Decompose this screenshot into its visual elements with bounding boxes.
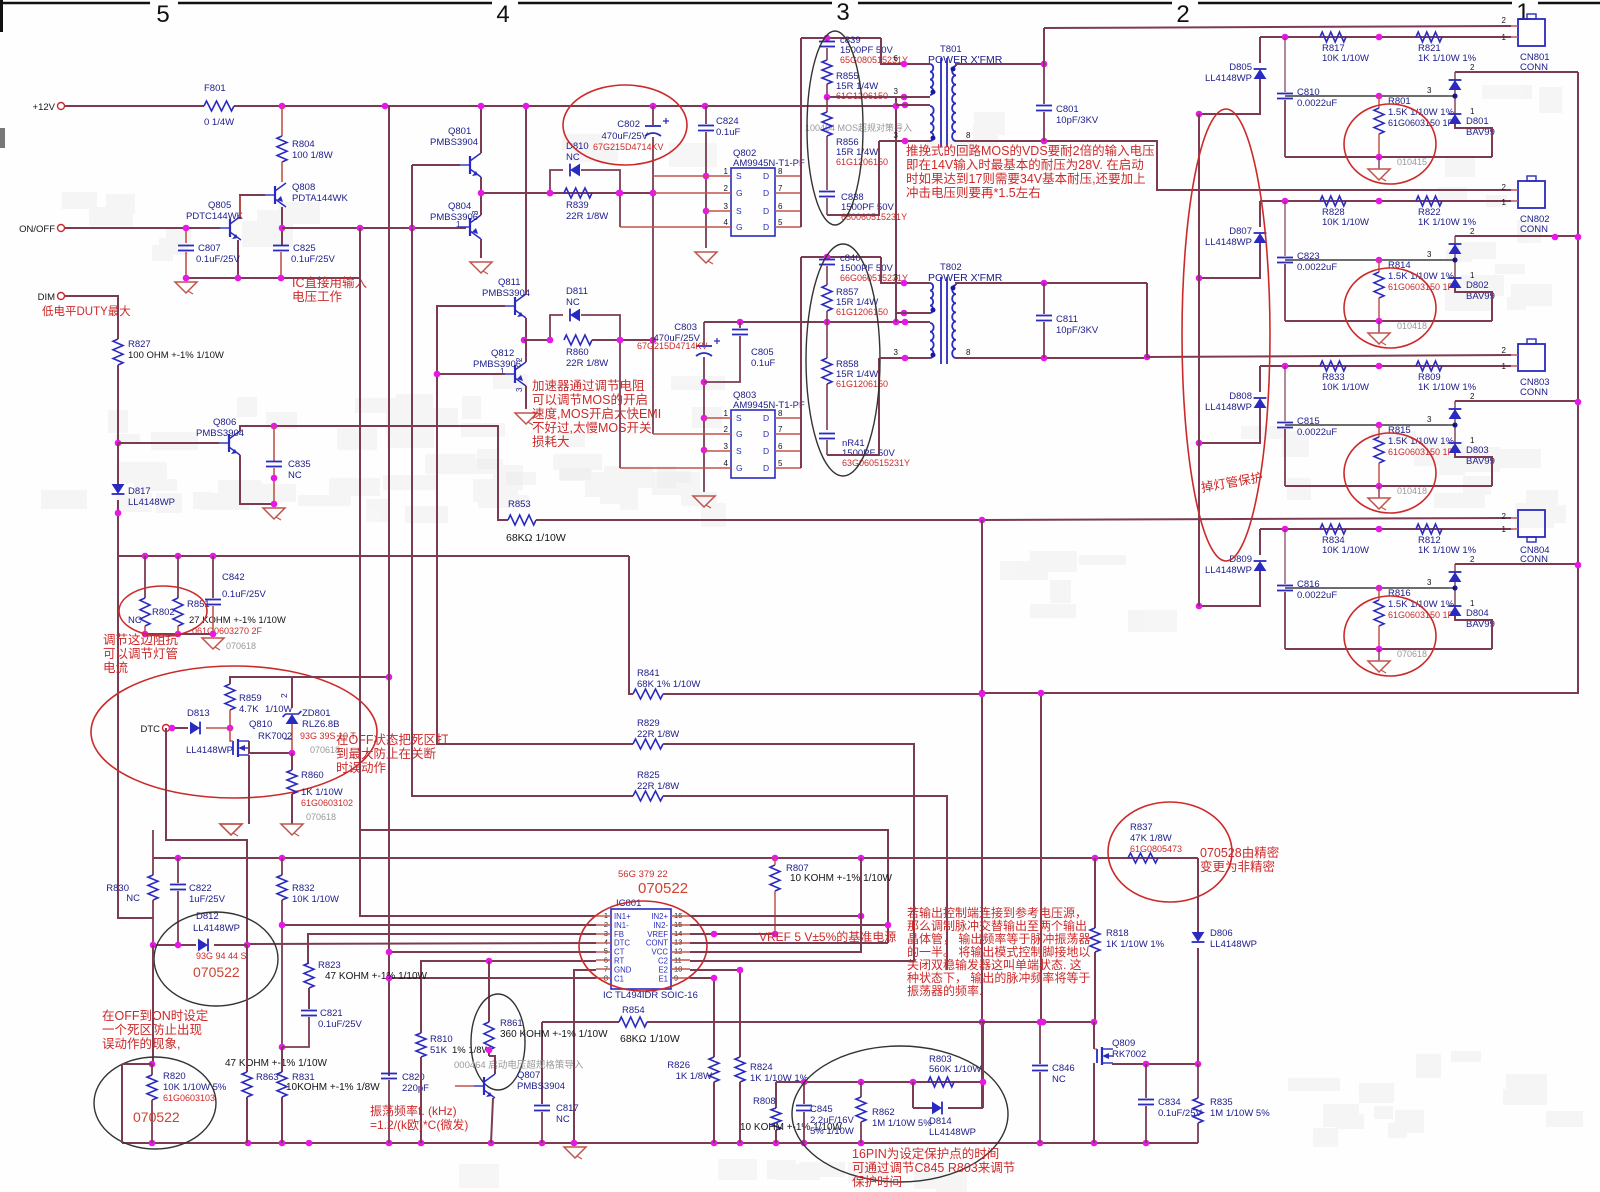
svg-text:LL4148WP: LL4148WP bbox=[1205, 402, 1252, 413]
svg-text:63G060515231Y: 63G060515231Y bbox=[842, 458, 910, 468]
diode D809 LL4148WP bbox=[1259, 529, 1261, 555]
svg-text:R861: R861 bbox=[500, 1018, 523, 1029]
svg-text:可通过调节C845 R803来调节: 可通过调节C845 R803来调节 bbox=[852, 1161, 1015, 1175]
svg-text:6: 6 bbox=[778, 442, 783, 451]
svg-text:NC: NC bbox=[556, 1114, 570, 1125]
resistor R815 bbox=[1378, 425, 1380, 437]
black ellipse around R820 bbox=[94, 1057, 216, 1149]
capacitor C816 bbox=[1284, 529, 1286, 584]
svg-text:PMBS3906: PMBS3906 bbox=[473, 359, 521, 370]
svg-text:61G0603150 1F: 61G0603150 1F bbox=[1388, 282, 1454, 292]
svg-text:10K 1/10W: 10K 1/10W bbox=[1322, 217, 1369, 228]
svg-text:到最大防止在关断: 到最大防止在关断 bbox=[336, 746, 436, 761]
svg-text:070528由精密: 070528由精密 bbox=[1200, 845, 1279, 860]
svg-text:C801: C801 bbox=[1056, 104, 1079, 115]
svg-text:种状态下， 输出的脉冲频率将等于: 种状态下， 输出的脉冲频率将等于 bbox=[907, 970, 1090, 985]
svg-text:ON/OFF: ON/OFF bbox=[19, 224, 55, 235]
wire T801 secondary bottom pin8 bbox=[956, 141, 1511, 190]
wire Q804 collector to rail y=193 bbox=[480, 193, 482, 215]
wire D804 pin2 to loop bbox=[1455, 563, 1578, 565]
wire bottom row CN801 bbox=[1285, 156, 1492, 158]
svg-text:LL4148WP: LL4148WP bbox=[1205, 237, 1252, 248]
svg-text:损耗大: 损耗大 bbox=[532, 435, 570, 449]
svg-text:D: D bbox=[763, 429, 769, 439]
svg-text:不好过,太慢MOS开关: 不好过,太慢MOS开关 bbox=[532, 420, 651, 435]
wire Q802 pin3 S row bbox=[706, 210, 731, 212]
svg-text:CT: CT bbox=[614, 948, 625, 957]
svg-text:R804: R804 bbox=[292, 139, 315, 150]
svg-text:8: 8 bbox=[778, 167, 783, 176]
wire right loop bbox=[982, 72, 1578, 693]
resistor R829 bbox=[633, 739, 663, 749]
svg-text:3: 3 bbox=[836, 0, 849, 26]
terminal +12V bbox=[58, 103, 65, 110]
svg-text:D: D bbox=[763, 222, 769, 232]
svg-text:R823: R823 bbox=[318, 960, 341, 971]
wire D802 pin1 down bbox=[1455, 288, 1492, 321]
resistor R810 bbox=[416, 1033, 426, 1057]
svg-text:3: 3 bbox=[894, 87, 899, 96]
resistor R832 bbox=[281, 858, 283, 875]
svg-text:VREF: VREF bbox=[647, 930, 668, 939]
capacitor C825 bbox=[273, 245, 289, 247]
ground CN804 channel bbox=[1378, 649, 1380, 661]
wire T801 bottom pin bbox=[879, 140, 930, 142]
svg-text:3: 3 bbox=[724, 202, 729, 211]
dual diode D802 BAV99 bbox=[1454, 236, 1456, 288]
svg-text:3: 3 bbox=[894, 348, 899, 357]
svg-text:4: 4 bbox=[496, 1, 509, 28]
wire Q806 emitter to gnd node bbox=[240, 455, 274, 504]
svg-text:DTC: DTC bbox=[614, 939, 630, 948]
svg-text:PMBS3904: PMBS3904 bbox=[196, 428, 244, 439]
svg-text:E1: E1 bbox=[658, 974, 668, 983]
svg-text:0.0022uF: 0.0022uF bbox=[1297, 98, 1337, 109]
red tall ellipse lamp protection bbox=[1182, 109, 1270, 561]
svg-text:LL4148WP: LL4148WP bbox=[128, 497, 175, 508]
ground CN801 channel bbox=[1378, 157, 1380, 169]
svg-text:10KOHM +-1% 1/8W: 10KOHM +-1% 1/8W bbox=[286, 1082, 380, 1093]
svg-text:1: 1 bbox=[724, 167, 729, 176]
svg-text:RT: RT bbox=[614, 957, 624, 966]
svg-text:2: 2 bbox=[1502, 512, 1507, 521]
resistor R860 22R bbox=[564, 335, 592, 345]
svg-text:61G1206150: 61G1206150 bbox=[836, 307, 888, 317]
wire node row R816 bbox=[1285, 587, 1447, 589]
wire Q808 collector down bbox=[281, 207, 283, 245]
svg-text:R837: R837 bbox=[1130, 822, 1153, 833]
black ellipse around D812 bbox=[154, 912, 278, 1006]
ground under C803 bbox=[693, 496, 715, 507]
wire sense feedback x=1041 bbox=[1040, 693, 1042, 1022]
svg-text:7: 7 bbox=[778, 184, 783, 193]
svg-text:CONN: CONN bbox=[1520, 554, 1548, 565]
resistor R851 bbox=[177, 556, 179, 598]
svg-text:4: 4 bbox=[724, 459, 729, 468]
svg-text:R802: R802 bbox=[152, 607, 175, 618]
svg-text:47K 1/8W: 47K 1/8W bbox=[1130, 833, 1172, 844]
wire bottom row CN804 bbox=[1285, 648, 1492, 650]
wire bottom rail y=1143 bbox=[122, 1142, 1198, 1144]
wire pin5 CT to C820 bbox=[389, 951, 596, 953]
svg-text:误动作的现象,: 误动作的现象, bbox=[102, 1036, 180, 1051]
wire pin1 row CN804 bbox=[1260, 528, 1511, 530]
svg-text:5% 1/10W: 5% 1/10W bbox=[810, 1126, 854, 1137]
resistor R825 bbox=[633, 791, 663, 801]
svg-text:RK7002: RK7002 bbox=[258, 731, 292, 742]
ground under C842 bbox=[202, 638, 224, 649]
capacitor C811 bbox=[1043, 283, 1045, 314]
svg-text:010418: 010418 bbox=[1397, 486, 1427, 496]
svg-text:D808: D808 bbox=[1229, 391, 1252, 402]
capacitor C817 NC bbox=[534, 1105, 550, 1107]
svg-text:即在14V输入时最基本的耐压为28V. 在启动: 即在14V输入时最基本的耐压为28V. 在启动 bbox=[906, 157, 1144, 172]
svg-text:C1: C1 bbox=[614, 974, 624, 983]
svg-text:IN2+: IN2+ bbox=[651, 912, 668, 921]
svg-text:10K 1/10W: 10K 1/10W bbox=[1322, 382, 1369, 393]
resistor R807 bbox=[770, 865, 780, 891]
svg-text:D803: D803 bbox=[1466, 445, 1489, 456]
transistor Q801 PMBS3904 bbox=[469, 156, 471, 174]
red ellipse around C802 bbox=[563, 85, 687, 165]
resistor R834 bbox=[1320, 524, 1346, 534]
capacitor c841 bbox=[819, 433, 835, 435]
svg-text:D: D bbox=[763, 171, 769, 181]
svg-text:360 KOHM +-1% 1/10W: 360 KOHM +-1% 1/10W bbox=[500, 1029, 608, 1040]
svg-text:CONN: CONN bbox=[1520, 62, 1548, 73]
svg-text:加速器通过调节电阻: 加速器通过调节电阻 bbox=[532, 379, 645, 393]
capacitor C822 bbox=[177, 858, 179, 883]
svg-text:2: 2 bbox=[279, 693, 289, 698]
svg-text:1.5K 1/10W 1%: 1.5K 1/10W 1% bbox=[1388, 436, 1455, 447]
wire snubber2 bottom rail y=455 bbox=[827, 358, 879, 455]
svg-text:070522: 070522 bbox=[133, 1109, 180, 1125]
svg-text:推挽式的回路MOS的VDS要耐2倍的输入电压: 推挽式的回路MOS的VDS要耐2倍的输入电压 bbox=[906, 143, 1155, 158]
svg-text:10K 1/10W 5%: 10K 1/10W 5% bbox=[163, 1082, 227, 1093]
svg-text:3: 3 bbox=[724, 442, 729, 451]
sheet border top bbox=[0, 2, 150, 5]
svg-text:R853: R853 bbox=[508, 499, 531, 510]
svg-text:61G0603150 1F: 61G0603150 1F bbox=[1388, 118, 1454, 128]
wire rail y=858 left block dots bbox=[175, 855, 182, 862]
svg-text:3: 3 bbox=[1427, 578, 1432, 587]
svg-text:D: D bbox=[763, 446, 769, 456]
svg-text:一个死区防止出现: 一个死区防止出现 bbox=[102, 1022, 202, 1037]
svg-text:1: 1 bbox=[724, 409, 729, 418]
capacitor C802 electrolytic bbox=[652, 106, 654, 125]
svg-text:2: 2 bbox=[1502, 16, 1507, 25]
diode D813 LL4148WP bbox=[190, 722, 200, 735]
svg-text:Q806: Q806 bbox=[213, 417, 236, 428]
svg-text:PMBS3904: PMBS3904 bbox=[517, 1081, 565, 1092]
left border mark bbox=[0, 0, 3, 32]
svg-text:GND: GND bbox=[614, 965, 632, 974]
svg-text:5: 5 bbox=[778, 459, 783, 468]
svg-text:61G0805473: 61G0805473 bbox=[1130, 844, 1182, 854]
wire Q803 pin3 S row bbox=[704, 450, 731, 452]
resistor R862 bbox=[860, 1082, 862, 1097]
svg-text:1.5K 1/10W 1%: 1.5K 1/10W 1% bbox=[1388, 271, 1455, 282]
wire node row R801 bbox=[1285, 95, 1447, 97]
svg-text:C821: C821 bbox=[320, 1008, 343, 1019]
capacitor c839 bbox=[819, 41, 835, 43]
svg-text:电压工作: 电压工作 bbox=[292, 290, 343, 304]
svg-text:NC: NC bbox=[288, 470, 302, 481]
wire +12V tap rail y=322 bbox=[704, 321, 930, 323]
wire rail y=193 bbox=[481, 192, 653, 194]
resistor R835 bbox=[1197, 1064, 1199, 1098]
svg-text:6: 6 bbox=[894, 54, 899, 63]
svg-text:16PIN为设定保护点的时间: 16PIN为设定保护点的时间 bbox=[852, 1146, 999, 1161]
svg-text:LL4148WP: LL4148WP bbox=[1205, 73, 1252, 84]
svg-text:2: 2 bbox=[515, 357, 524, 362]
svg-text:速度,MOS开启太快EMI: 速度,MOS开启太快EMI bbox=[532, 406, 661, 421]
svg-text:1uF/25V: 1uF/25V bbox=[189, 894, 226, 905]
wire bottom row CN802 bbox=[1285, 320, 1492, 322]
svg-text:0.0022uF: 0.0022uF bbox=[1297, 262, 1337, 273]
ground CN802 channel bbox=[1378, 321, 1380, 333]
wire bottom of R802 R851 C842 bbox=[145, 633, 213, 635]
svg-text:10K 1/10W: 10K 1/10W bbox=[292, 894, 339, 905]
wire Q803 pin4 G row bbox=[620, 467, 731, 469]
svg-text:070618: 070618 bbox=[226, 641, 256, 651]
capacitor C838 bbox=[819, 191, 835, 193]
svg-text:1K 1/10W: 1K 1/10W bbox=[301, 787, 343, 798]
ground bottom rail bbox=[564, 1147, 586, 1158]
svg-text:12: 12 bbox=[674, 947, 682, 956]
svg-text:51K: 51K bbox=[430, 1045, 448, 1056]
svg-text:2: 2 bbox=[1502, 183, 1507, 192]
ground under Q804 bbox=[470, 262, 492, 273]
svg-text:C846: C846 bbox=[1052, 1063, 1075, 1074]
wire R859 top rail bbox=[230, 677, 389, 684]
svg-text:CONN: CONN bbox=[1520, 224, 1548, 235]
red ellipse around R816 bbox=[1344, 596, 1436, 676]
svg-text:关闭双稳输发器这叫单端状态. 这: 关闭双稳输发器这叫单端状态. 这 bbox=[907, 957, 1082, 972]
transistor Q812 PMBS3906 bbox=[514, 365, 516, 383]
svg-text:4: 4 bbox=[724, 218, 729, 227]
connector CN802 bbox=[1518, 181, 1545, 208]
wire R803 D814 block bbox=[776, 1081, 983, 1083]
dual diode D803 BAV99 bbox=[1454, 401, 1456, 453]
wire Q802 pin2 G row bbox=[653, 192, 731, 194]
svg-text:0.1uF: 0.1uF bbox=[716, 127, 740, 138]
capacitor C824 bbox=[705, 106, 707, 124]
resistor R826 bbox=[709, 1057, 719, 1082]
wire x=983 column bottom bbox=[982, 1022, 984, 1108]
ground under C807 bbox=[175, 282, 197, 293]
resistor R816 bbox=[1378, 588, 1380, 600]
svg-text:1: 1 bbox=[1502, 198, 1507, 207]
wire C2 E2 E1 rows bbox=[690, 960, 914, 962]
svg-text:47 KOHM +-1% 1/10W: 47 KOHM +-1% 1/10W bbox=[325, 971, 428, 982]
svg-text:S: S bbox=[736, 206, 742, 216]
terminal ON/OFF bbox=[58, 225, 65, 232]
svg-text:Q807: Q807 bbox=[517, 1070, 540, 1081]
black ellipse around R861 bbox=[471, 994, 525, 1090]
wire D812 row bbox=[153, 944, 196, 946]
svg-text:PDTC144WK: PDTC144WK bbox=[186, 211, 244, 222]
svg-text:5: 5 bbox=[156, 1, 169, 28]
svg-text:NC: NC bbox=[566, 297, 580, 308]
svg-text:R841: R841 bbox=[637, 668, 660, 679]
svg-text:1K 1/10W 1%: 1K 1/10W 1% bbox=[1418, 217, 1477, 228]
wire D803 pin2 to loop bbox=[1455, 400, 1578, 402]
svg-text:R863: R863 bbox=[256, 1072, 279, 1083]
svg-text:R808: R808 bbox=[753, 1096, 776, 1107]
svg-text:1K 1/10W 1%: 1K 1/10W 1% bbox=[1106, 939, 1165, 950]
svg-text:2: 2 bbox=[1470, 555, 1475, 564]
resistor R833 bbox=[1320, 361, 1346, 371]
ground CN803 channel bbox=[1378, 486, 1380, 498]
resistor R818 bbox=[1094, 858, 1096, 928]
svg-text:可以调节灯管: 可以调节灯管 bbox=[103, 646, 178, 661]
svg-text:8: 8 bbox=[778, 409, 783, 418]
svg-text:R820: R820 bbox=[163, 1071, 186, 1082]
wire DTC row pin4 bbox=[247, 943, 596, 944]
diode D805 LL4148WP bbox=[1259, 37, 1261, 63]
svg-text:1: 1 bbox=[1470, 107, 1475, 116]
svg-text:10 KOHM +-1% 1/10W: 10 KOHM +-1% 1/10W bbox=[790, 873, 893, 884]
svg-text:NC: NC bbox=[126, 893, 140, 904]
svg-text:D814: D814 bbox=[929, 1116, 952, 1127]
svg-text:PMBS3904: PMBS3904 bbox=[482, 288, 530, 299]
svg-text:C835: C835 bbox=[288, 459, 311, 470]
black ellipse around C845 R862 D814 bbox=[792, 1046, 1008, 1182]
svg-text:R824: R824 bbox=[750, 1062, 773, 1073]
wire R854 left column to C817 bbox=[541, 1022, 543, 1104]
svg-text:1.5K 1/10W 1%: 1.5K 1/10W 1% bbox=[1388, 599, 1455, 610]
red ellipse around R814 bbox=[1344, 268, 1436, 348]
svg-text:G: G bbox=[736, 222, 743, 232]
wire bus +12V x=389 bbox=[388, 106, 390, 1076]
diode D807 LL4148WP bbox=[1259, 201, 1261, 227]
svg-text:CONT: CONT bbox=[646, 939, 668, 948]
svg-text:R854: R854 bbox=[622, 1005, 645, 1016]
diode D806 LL4148WP bbox=[1197, 858, 1199, 932]
wire to CN803 pin2 bbox=[1147, 283, 1511, 357]
ground under Q812 bbox=[515, 413, 537, 424]
wire T801 secondary top bbox=[956, 64, 1044, 66]
svg-text:LL4148WP: LL4148WP bbox=[1205, 565, 1252, 576]
svg-text:D: D bbox=[763, 188, 769, 198]
wire Q812 emitter to ground bbox=[525, 386, 527, 409]
red ellipse around R801 bbox=[1344, 104, 1436, 184]
svg-text:D801: D801 bbox=[1466, 116, 1489, 127]
svg-text:电流: 电流 bbox=[103, 661, 129, 675]
capacitor C834 bbox=[1145, 1064, 1147, 1098]
svg-text:22R 1/8W: 22R 1/8W bbox=[637, 781, 679, 792]
mosfet Q810 RK7002 bbox=[232, 741, 234, 755]
svg-text:3: 3 bbox=[894, 273, 899, 282]
wire rail y=858 bbox=[153, 857, 1198, 859]
svg-text:68KΩ 1/10W: 68KΩ 1/10W bbox=[506, 532, 566, 544]
wire Q805 collector up bbox=[239, 196, 241, 217]
svg-text:0.0022uF: 0.0022uF bbox=[1297, 427, 1337, 438]
wire T802 pin6 bbox=[881, 257, 930, 283]
svg-text:G: G bbox=[736, 463, 743, 473]
svg-text:8: 8 bbox=[966, 131, 971, 140]
svg-text:2: 2 bbox=[1470, 227, 1475, 236]
svg-text:LL4148WP: LL4148WP bbox=[1210, 939, 1257, 950]
zener ZD801 RLZ6.8B bbox=[291, 677, 293, 708]
svg-text:C817: C817 bbox=[556, 1103, 579, 1114]
wire bus ON/OFF x=360 bbox=[282, 227, 466, 229]
svg-text:NC: NC bbox=[1052, 1074, 1066, 1085]
svg-text:PMBS3904: PMBS3904 bbox=[430, 137, 478, 148]
svg-text:1: 1 bbox=[1502, 33, 1507, 42]
svg-text:1: 1 bbox=[1470, 436, 1475, 445]
svg-text:ZD801: ZD801 bbox=[302, 708, 331, 719]
svg-text:R832: R832 bbox=[292, 883, 315, 894]
svg-text:R860: R860 bbox=[301, 770, 324, 781]
wire T801 pin3 center bbox=[896, 96, 930, 98]
svg-text:1: 1 bbox=[1502, 362, 1507, 371]
wire R853 to right bus bbox=[536, 519, 982, 521]
terminal DIM bbox=[58, 293, 65, 300]
red ellipse around R815 bbox=[1344, 433, 1436, 513]
transistor Q806 PMBS3904 bbox=[228, 434, 230, 452]
wire pin1 row CN801 bbox=[1260, 36, 1511, 38]
resistor R839 22R bbox=[564, 188, 592, 198]
wire D801 pin2 to loop bbox=[1455, 71, 1578, 73]
wire Q810 source to ground bbox=[248, 755, 250, 824]
svg-text:D802: D802 bbox=[1466, 280, 1489, 291]
resistor R837 bbox=[1128, 853, 1158, 863]
resistor R830 NC bbox=[152, 830, 154, 875]
svg-text:010418: 010418 bbox=[1397, 321, 1427, 331]
red ellipse DTC dead-zone block bbox=[91, 666, 377, 798]
svg-text:若输出控制端连接到参考电压源，: 若输出控制端连接到参考电压源， bbox=[907, 905, 1087, 920]
wire DTC down to bottom block bbox=[166, 728, 247, 944]
capacitor C835 NC bbox=[273, 426, 275, 461]
svg-text:0 1/4W: 0 1/4W bbox=[204, 117, 234, 128]
svg-text:070522: 070522 bbox=[638, 880, 688, 897]
svg-text:22R 1/8W: 22R 1/8W bbox=[637, 729, 679, 740]
svg-text:1M 1/10W 5%: 1M 1/10W 5% bbox=[872, 1118, 932, 1129]
wire Q811 base wire bbox=[437, 306, 505, 374]
svg-text:LL4148WP: LL4148WP bbox=[186, 745, 233, 756]
svg-text:R827: R827 bbox=[128, 339, 151, 350]
svg-text:1K 1/10W 1%: 1K 1/10W 1% bbox=[1418, 545, 1477, 556]
wire Q803 pin1 S row bbox=[704, 417, 731, 419]
wire center tap stubs T802 bbox=[901, 310, 908, 317]
svg-text:0.1uF/25V: 0.1uF/25V bbox=[222, 589, 266, 600]
capacitor C803 electrolytic bbox=[703, 322, 705, 345]
wire x=118 column down to bottom block bbox=[118, 556, 153, 918]
svg-text:3: 3 bbox=[1427, 86, 1432, 95]
resistor R855 bbox=[822, 60, 832, 84]
capacitor C842 bbox=[212, 556, 214, 598]
svg-text:+12V: +12V bbox=[33, 102, 56, 113]
svg-text:0.1uF/25V: 0.1uF/25V bbox=[291, 254, 335, 265]
wire center tap stubs T801 bbox=[827, 96, 904, 98]
wire Q810 gate bbox=[230, 728, 233, 741]
wire DTC node bbox=[170, 727, 188, 729]
svg-text:61G0603103: 61G0603103 bbox=[163, 1093, 215, 1103]
capacitor C801 bbox=[1043, 64, 1045, 104]
svg-text:22R 1/8W: 22R 1/8W bbox=[566, 211, 608, 222]
svg-text:DIM: DIM bbox=[38, 292, 56, 303]
wire D802 pin2 to loop bbox=[1455, 235, 1578, 237]
wire tall spine x=1199 bbox=[1198, 114, 1200, 606]
wire bottom row CN803 bbox=[1285, 485, 1492, 487]
diode D812 LL4148WP bbox=[198, 939, 208, 952]
svg-text:0.1uF/25V: 0.1uF/25V bbox=[196, 254, 240, 265]
wire rail y=340 bbox=[592, 339, 653, 341]
connector CN801 bbox=[1518, 19, 1545, 46]
svg-text:1K 1/10W 1%: 1K 1/10W 1% bbox=[1418, 53, 1477, 64]
